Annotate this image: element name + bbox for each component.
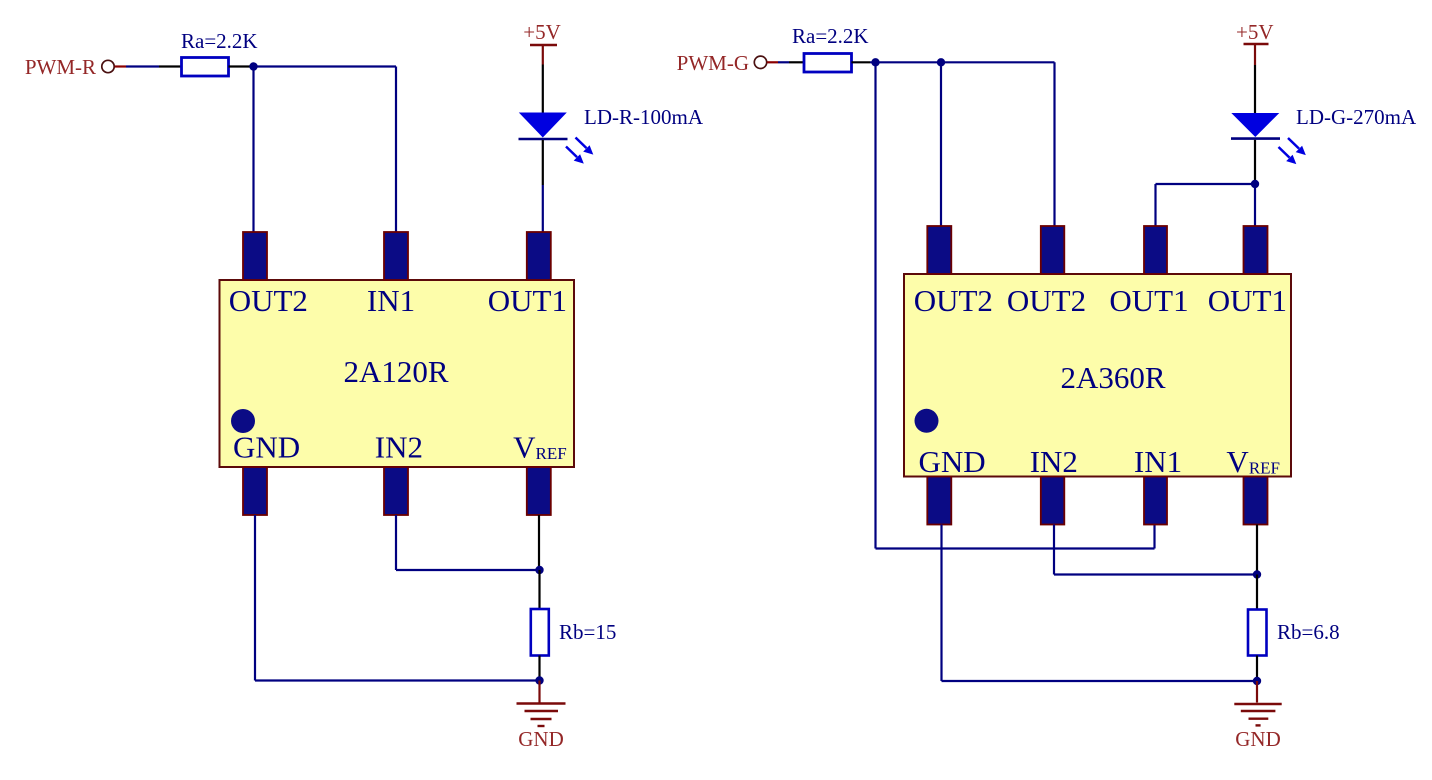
junction F (LED to OUT1 pins) bbox=[1251, 180, 1259, 188]
junction A (after Ra) bbox=[249, 62, 257, 70]
junction H (Rb/GND net right) bbox=[1253, 677, 1261, 685]
label Rb=6.8 bbox=[1277, 620, 1340, 644]
IC U2 pin GND (bottom) bbox=[927, 477, 951, 525]
svg-text:GND: GND bbox=[1235, 727, 1281, 751]
IC U1 pin GND (bottom) bbox=[243, 467, 267, 515]
pin label VREF (U1) bbox=[513, 430, 567, 465]
IC U2 pin OUT1-2 (top) bbox=[1244, 226, 1268, 274]
wire (red stub from port) bbox=[115, 65, 126, 67]
pin label IN1 (U1) bbox=[367, 283, 415, 318]
IC U2 pin OUT2-1 (top) bbox=[927, 226, 951, 274]
svg-text:OUT2: OUT2 bbox=[229, 283, 308, 318]
resistor Ra=2.2K (left) bbox=[182, 58, 229, 77]
wire (down to IN1 pin) bbox=[395, 67, 397, 234]
svg-text:PWM-G: PWM-G bbox=[677, 51, 749, 75]
svg-text:OUT2: OUT2 bbox=[914, 283, 993, 318]
junction D (after Ra right) bbox=[871, 58, 879, 66]
wire (down from junction A to OUT2 pin) bbox=[252, 67, 254, 234]
resistor Ra=2.2K (right) bbox=[804, 54, 852, 73]
port PWM-R terminal circle bbox=[102, 60, 114, 72]
LED D1 light arrow 1 bbox=[576, 138, 594, 155]
wire (long left-side drop from junction D) bbox=[874, 62, 876, 548]
wire (black lead to LED D2 anode) bbox=[1254, 65, 1256, 114]
svg-text:IN1: IN1 bbox=[1134, 444, 1182, 479]
wire (navy, junction to IN1 corner) bbox=[250, 65, 396, 67]
wire (IN2 down right) bbox=[1053, 525, 1055, 575]
wire (black lead out of Ra) bbox=[229, 65, 251, 67]
svg-text:PWM-R: PWM-R bbox=[25, 55, 96, 79]
svg-text:+5V: +5V bbox=[1236, 20, 1274, 44]
wire (maroon stub to ground symbol) bbox=[538, 681, 540, 704]
LED D1 triangle bbox=[519, 113, 567, 138]
wire (navy, port to Ra lead) bbox=[126, 65, 159, 67]
IC U1 pin IN2 (bottom) bbox=[384, 467, 408, 515]
wire (black lead from LED cathode) bbox=[542, 140, 544, 185]
svg-text:2A120R: 2A120R bbox=[343, 354, 448, 389]
junction C (Rb/GND net) bbox=[535, 676, 543, 684]
pin label VREF (U2) bbox=[1226, 444, 1280, 479]
ground symbol (left) bbox=[517, 704, 566, 727]
IC U2 pin OUT1-1 (top) bbox=[1144, 226, 1167, 274]
wire (black VREF lead down right) bbox=[1256, 525, 1258, 575]
wire (black lead from Rb) bbox=[538, 656, 540, 681]
wire (left to OUT1 pin 1 column) bbox=[1156, 183, 1256, 185]
junction G (VREF/IN2 right) bbox=[1253, 570, 1261, 578]
svg-text:Rb=6.8: Rb=6.8 bbox=[1277, 620, 1340, 644]
svg-text:LD-R-100mA: LD-R-100mA bbox=[584, 105, 704, 129]
LED D2 triangle bbox=[1231, 113, 1279, 137]
svg-text:GND: GND bbox=[518, 727, 564, 751]
LED D2 cathode bar bbox=[1231, 137, 1280, 140]
svg-text:GND: GND bbox=[233, 430, 300, 465]
svg-text:2A360R: 2A360R bbox=[1060, 360, 1165, 395]
wire (black lead to LED D1 anode) bbox=[542, 65, 544, 114]
wire (navy, to Ra lead) bbox=[778, 61, 789, 63]
svg-text:IN1: IN1 bbox=[367, 283, 415, 318]
label LD-R-100mA bbox=[584, 105, 704, 129]
IC U2 designator 2A360R bbox=[1060, 360, 1165, 395]
svg-text:Ra=2.2K: Ra=2.2K bbox=[181, 29, 258, 53]
wire (navy horizontal to OUT2 pins) bbox=[870, 61, 1055, 63]
wire (GND pin down) bbox=[254, 515, 256, 681]
pin label OUT1-1 (U2) bbox=[1109, 283, 1188, 318]
power +5V label (left) bbox=[523, 20, 561, 44]
wire (IN2 to VREF junction) bbox=[396, 569, 540, 571]
IC U1 pin OUT1 (top) bbox=[527, 232, 551, 280]
LED D1 light arrow 2 bbox=[566, 147, 584, 164]
wire (down to OUT2 pin 2) bbox=[1053, 62, 1055, 227]
IC U2 2A360R body bbox=[904, 274, 1291, 477]
label LD-G-270mA bbox=[1296, 105, 1417, 129]
wire (black lead to Rb right) bbox=[1256, 575, 1258, 611]
IC U1 2A120R body bbox=[220, 280, 575, 467]
junction E (OUT2 branch) bbox=[937, 58, 945, 66]
wire (across to IN1 column) bbox=[876, 547, 1155, 549]
LED D1 cathode bar bbox=[519, 138, 568, 141]
LED D2 light arrow 2 bbox=[1279, 147, 1297, 164]
pin label GND (U1) bbox=[233, 430, 300, 465]
label GND (left ground) bbox=[518, 727, 564, 751]
svg-text:IN2: IN2 bbox=[1030, 444, 1078, 479]
svg-text:Rb=15: Rb=15 bbox=[559, 620, 616, 644]
label GND (right ground) bbox=[1235, 727, 1281, 751]
wire (black lead from Rb right) bbox=[1256, 656, 1258, 682]
wire (up into IN1 pin) bbox=[1153, 525, 1155, 549]
IC U2 pin IN2 (bottom) bbox=[1041, 477, 1065, 525]
pin label IN2 (U2) bbox=[1030, 444, 1078, 479]
IC U1 designator 2A120R bbox=[343, 354, 448, 389]
resistor Rb=15 bbox=[531, 609, 549, 656]
IC U2 pin-1 dot bbox=[915, 409, 939, 433]
wire (black lead from LED D2 cathode) bbox=[1254, 140, 1256, 181]
pin label OUT2-1 (U2) bbox=[914, 283, 993, 318]
pin label IN1 (U2) bbox=[1134, 444, 1182, 479]
wire (black lead into Ra right) bbox=[789, 61, 805, 63]
svg-text:OUT1: OUT1 bbox=[1208, 283, 1287, 318]
svg-text:GND: GND bbox=[919, 444, 986, 479]
wire (red stub from PWM-G) bbox=[767, 61, 778, 63]
wire (black lead into Ra) bbox=[159, 65, 182, 67]
port PWM-G label bbox=[677, 51, 749, 75]
label Ra=2.2K (right) bbox=[792, 24, 869, 48]
power +5V label (right) bbox=[1236, 20, 1274, 44]
wire (IN2 down) bbox=[395, 515, 397, 570]
IC U1 pin OUT2 (top) bbox=[243, 232, 267, 280]
wire (down to OUT1 pin 1) bbox=[1154, 184, 1156, 227]
svg-text:Ra=2.2K: Ra=2.2K bbox=[792, 24, 869, 48]
port PWM-R label bbox=[25, 55, 96, 79]
IC U1 pin-1 dot bbox=[231, 409, 255, 433]
port PWM-G terminal circle bbox=[754, 56, 766, 68]
wire (GND pin to junction H) bbox=[942, 680, 1258, 682]
pin label GND (U2) bbox=[919, 444, 986, 479]
IC U2 pin VREF (bottom) bbox=[1244, 477, 1268, 525]
pin label OUT2 (U1) bbox=[229, 283, 308, 318]
wire (GND pin to junction C) bbox=[255, 679, 540, 681]
wire (navy into junction F) bbox=[1254, 181, 1256, 184]
IC U1 pin VREF (bottom) bbox=[527, 467, 551, 515]
label Ra=2.2K (left) bbox=[181, 29, 258, 53]
power +5V bar symbol (left) bbox=[530, 45, 557, 65]
junction B (VREF/IN2) bbox=[535, 566, 543, 574]
svg-text:LD-G-270mA: LD-G-270mA bbox=[1296, 105, 1417, 129]
svg-text:OUT1: OUT1 bbox=[1109, 283, 1188, 318]
svg-text:IN2: IN2 bbox=[375, 430, 423, 465]
pin label OUT1-2 (U2) bbox=[1208, 283, 1287, 318]
wire (GND pin down right) bbox=[940, 525, 942, 682]
wire (down to OUT2 pin 1) bbox=[940, 62, 942, 227]
IC U2 pin IN1 (bottom) bbox=[1144, 477, 1167, 525]
label Rb=15 bbox=[559, 620, 616, 644]
IC U2 pin OUT2-2 (top) bbox=[1041, 226, 1065, 274]
svg-text:+5V: +5V bbox=[523, 20, 561, 44]
wire (IN2 to VREF junction right) bbox=[1054, 573, 1257, 575]
ground symbol (right) bbox=[1234, 704, 1281, 725]
IC U1 pin IN1 (top) bbox=[384, 232, 408, 280]
wire (down to OUT1 pin 2) bbox=[1254, 184, 1256, 227]
wire (black lead to Rb) bbox=[538, 570, 540, 608]
wire (black lead out of Ra right) bbox=[852, 61, 871, 63]
wire (black VREF lead down) bbox=[538, 515, 540, 570]
svg-text:OUT2: OUT2 bbox=[1007, 283, 1086, 318]
wire (navy to OUT1 pin) bbox=[542, 185, 544, 233]
pin label OUT2-2 (U2) bbox=[1007, 283, 1086, 318]
wire (maroon stub to ground right) bbox=[1256, 681, 1258, 703]
power +5V bar symbol (right) bbox=[1244, 44, 1269, 65]
resistor Rb=6.8 bbox=[1248, 610, 1267, 656]
pin label OUT1 (U1) bbox=[488, 283, 567, 318]
svg-text:OUT1: OUT1 bbox=[488, 283, 567, 318]
LED D2 light arrow 1 bbox=[1288, 138, 1306, 155]
pin label IN2 (U1) bbox=[375, 430, 423, 465]
